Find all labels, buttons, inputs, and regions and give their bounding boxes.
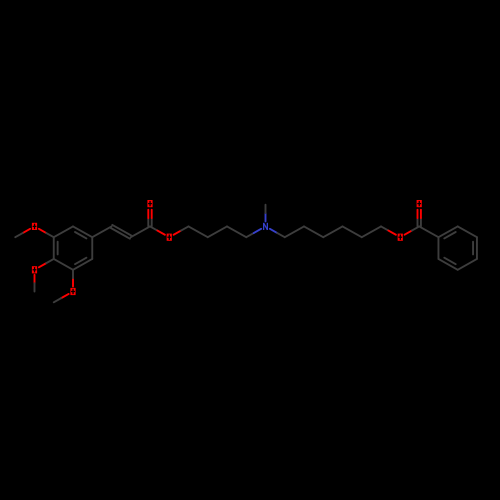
- bond SW_L-NW_L: [53, 237, 55, 259]
- bond C=O left: [151, 218, 153, 226]
- bond B_L-SW_L: [54, 259, 73, 270]
- atom O2 oxygen label: [32, 266, 37, 273]
- atom O5 oxygen label: [147, 200, 152, 207]
- bond C1-C2: [189, 226, 208, 237]
- bond C9-C10: [362, 226, 381, 237]
- bond NW_R-T_R: [438, 226, 457, 237]
- bond O2-methyl: [34, 275, 36, 283]
- bond T_R-NE_R: [458, 226, 477, 237]
- bond SW_R-NW_R: [437, 237, 439, 259]
- bond ring-vinyl: [92, 226, 111, 237]
- bond SE_L-B_L: [73, 259, 92, 270]
- atom O1 oxygen label: [32, 223, 37, 230]
- bond C10-O6: [381, 226, 388, 230]
- bond esterO-carbonyl right: [405, 231, 412, 235]
- bond C8-C9: [343, 226, 362, 237]
- bond O1-methyl: [23, 229, 30, 233]
- bond C7-C8: [323, 226, 342, 237]
- bond NW_L-T_L: [54, 226, 73, 237]
- bond vinyl C=C: [111, 228, 130, 239]
- bond vinyl-carbonyl: [131, 226, 150, 237]
- bond B_R-SW_R: [438, 259, 457, 270]
- bond T_L-NE_L: [73, 226, 92, 237]
- atom O7 oxygen label: [417, 200, 422, 207]
- bond N-methyl: [265, 213, 267, 221]
- bond SE_R-B_R: [458, 259, 477, 270]
- bond C5-C6: [285, 226, 304, 237]
- bond O3-ring: [72, 278, 74, 286]
- bond NE_L-SE_L: [91, 237, 93, 259]
- bond carbonyl-ring right: [419, 226, 438, 237]
- bond C=O right: [420, 218, 422, 226]
- atom O3 oxygen label: [70, 288, 75, 295]
- bond C6-C7: [304, 226, 323, 237]
- bond C3-C4: [227, 226, 246, 237]
- bond O3-methyl: [61, 294, 68, 298]
- bond C2-C3: [208, 226, 227, 237]
- bond O4-C1: [174, 231, 181, 235]
- atom N nitrogen label: [263, 223, 268, 230]
- bond O2-ring: [39, 263, 46, 267]
- atom O4 oxygen label: [167, 234, 172, 241]
- atom O6 oxygen label: [398, 234, 403, 241]
- bond NE_R-SE_R: [476, 237, 478, 259]
- bond carbonyl-esterO: [150, 226, 157, 230]
- bond C4-N: [246, 233, 253, 237]
- bond O1-ring: [39, 229, 46, 233]
- bond N-C5: [270, 229, 277, 233]
